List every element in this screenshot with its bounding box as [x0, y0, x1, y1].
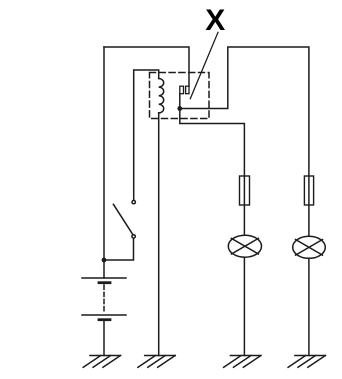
svg-text:X: X: [205, 4, 225, 37]
